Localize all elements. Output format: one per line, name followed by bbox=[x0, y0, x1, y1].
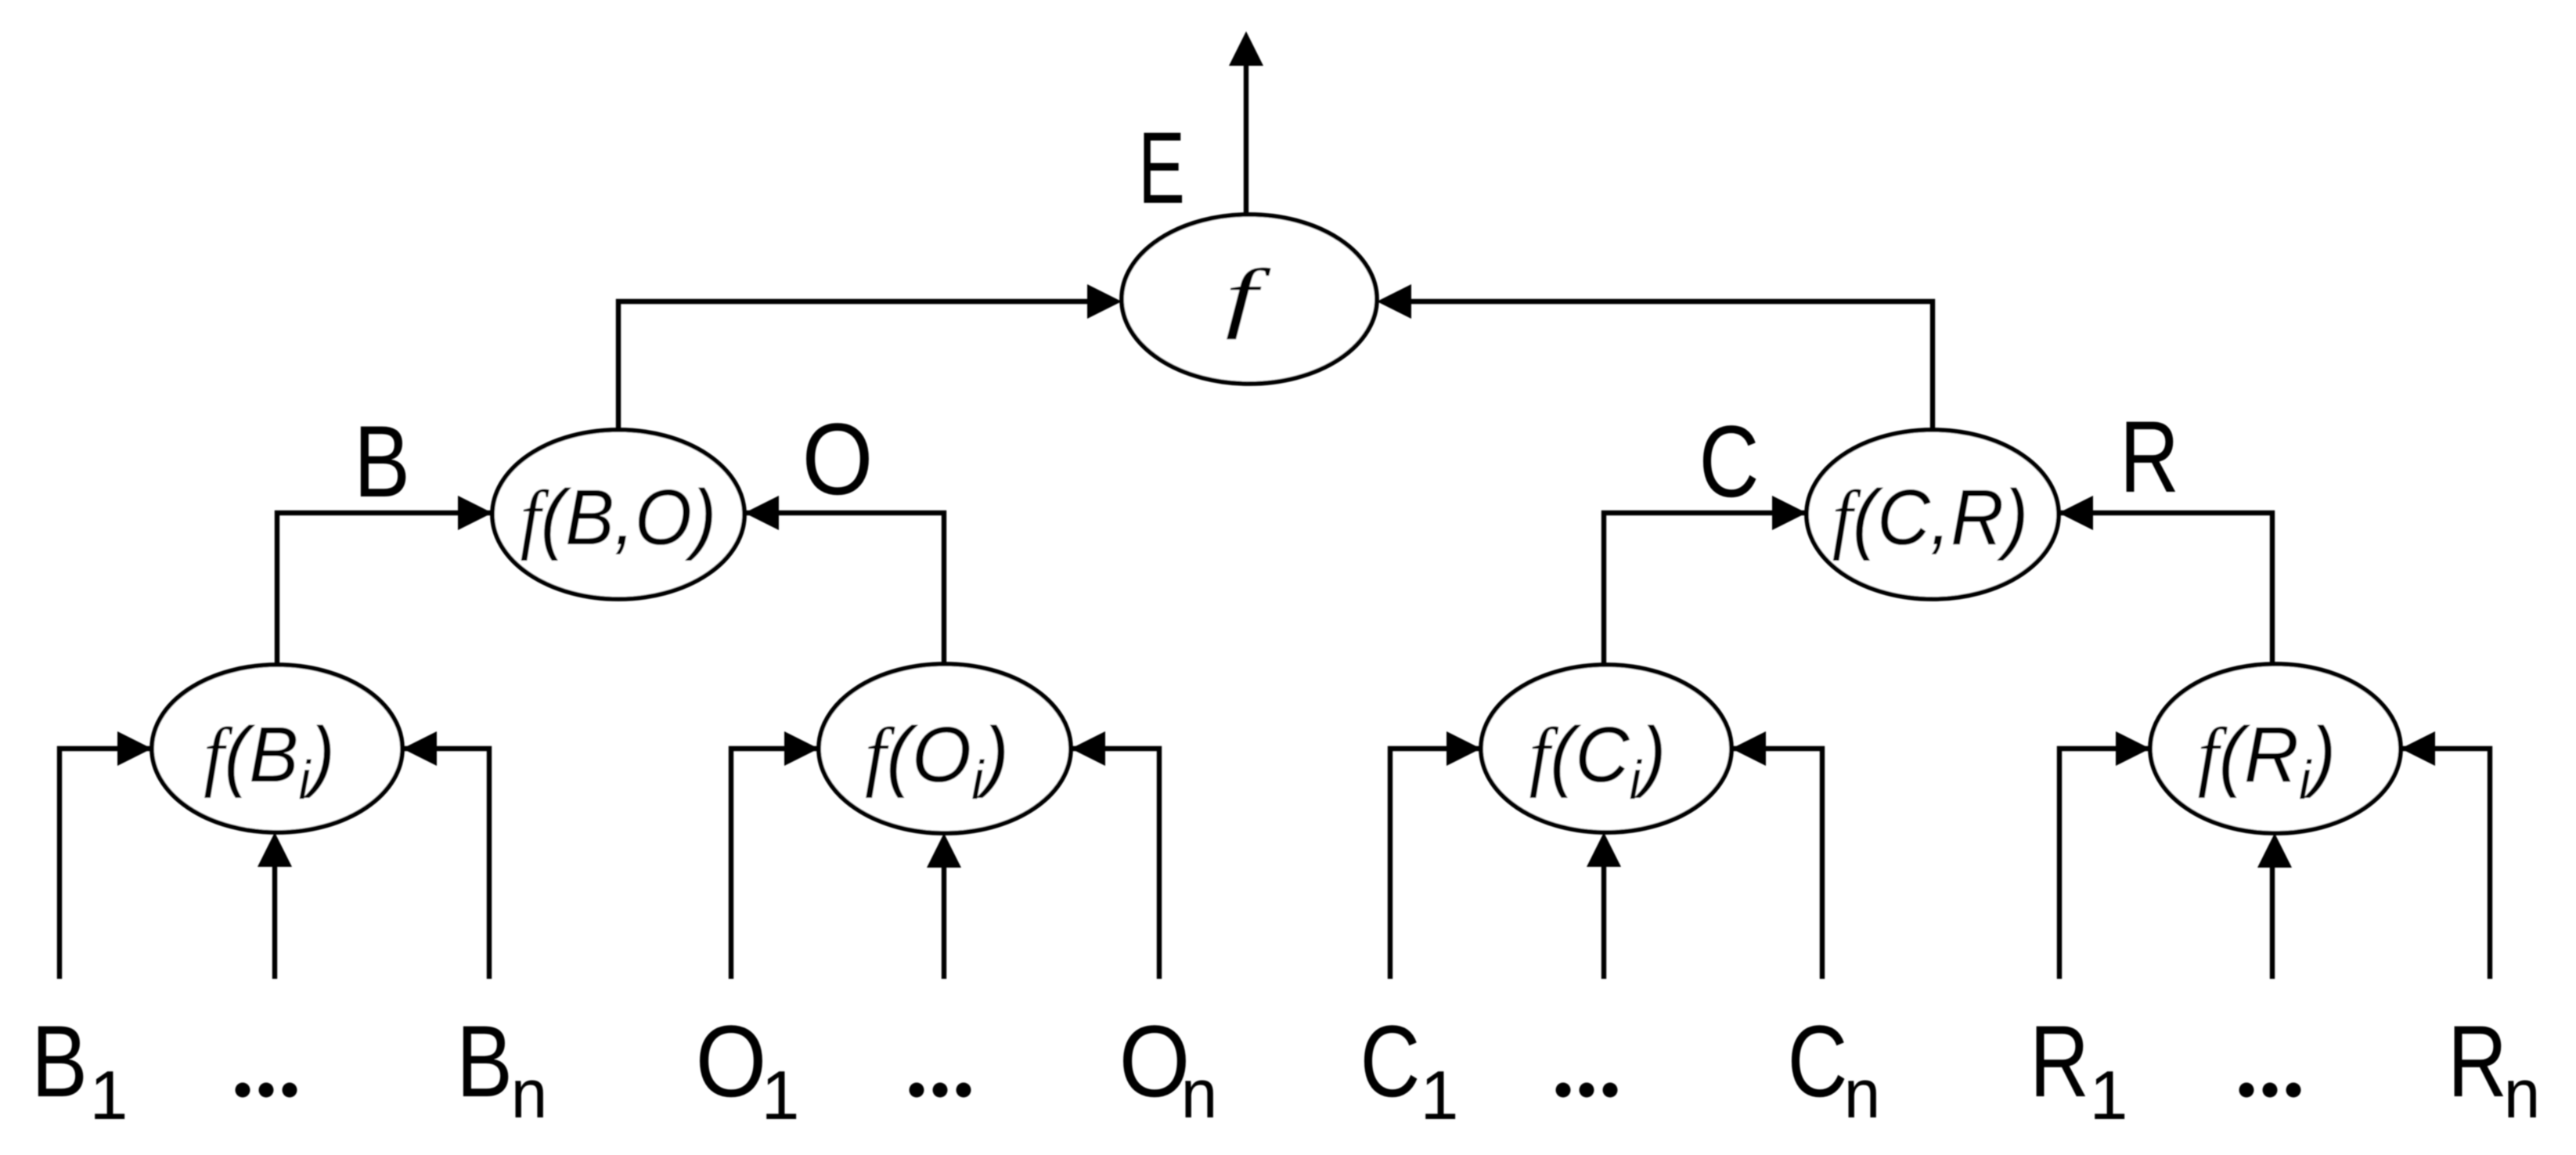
label input B_1 bbox=[31, 1005, 128, 1134]
label B (edge into f(B,O)) bbox=[354, 406, 410, 519]
arrowhead into f(C_i) right bbox=[1731, 731, 1766, 766]
arrowhead into f(B,O) left bbox=[458, 496, 492, 530]
arrowhead into f(B_i) left bbox=[117, 731, 152, 766]
svg-text:f(B,O): f(B,O) bbox=[521, 473, 717, 561]
node text f(C_i) bbox=[1529, 710, 1666, 810]
label input B_n bbox=[456, 1005, 547, 1133]
node text f(R_i) bbox=[2198, 711, 2336, 811]
arrowhead into f(C,R) right bbox=[2059, 496, 2093, 530]
node text f(C,R) bbox=[1832, 473, 2029, 561]
svg-text:f(Ri): f(Ri) bbox=[2198, 711, 2336, 811]
node ellipse U_CR f(C,R) bbox=[1807, 430, 2059, 599]
node text f(O_i) bbox=[865, 710, 1009, 810]
label ellipsis between O_1 and O_n bbox=[910, 1083, 971, 1098]
node ellipse U_Ci f(C_i) bbox=[1481, 665, 1731, 832]
label C (edge into f(C,R)) bbox=[1699, 405, 1760, 518]
svg-text:n: n bbox=[1181, 1056, 1217, 1132]
node text f(B_i) bbox=[204, 711, 335, 811]
wire C from f(C_i) top to f(C,R) left input bbox=[1604, 513, 1839, 667]
svg-text:n: n bbox=[511, 1056, 547, 1132]
svg-text:f(Bi): f(Bi) bbox=[204, 711, 335, 811]
node ellipse U_f top aggregation bbox=[1122, 215, 1377, 384]
wire O_1 input to f(O_i) left bbox=[731, 749, 855, 979]
label O (edge into f(B,O)) bbox=[802, 402, 874, 516]
arrowhead into f left bbox=[1087, 284, 1122, 319]
svg-text:f(Ci): f(Ci) bbox=[1529, 710, 1666, 810]
node text f inside top ellipse bbox=[1225, 253, 1271, 340]
wire O_middle input to f(O_i) bottom bbox=[942, 866, 946, 979]
svg-text:C: C bbox=[1699, 405, 1760, 518]
label input R_1 bbox=[2030, 1005, 2127, 1134]
label input O_1 bbox=[696, 1005, 800, 1134]
arrowhead into f(R_i) right bbox=[2401, 731, 2435, 766]
wire R_1 input to f(R_i) left bbox=[2059, 749, 2186, 979]
arrowhead into f(B_i) right bbox=[402, 731, 437, 766]
label input O_n bbox=[1119, 1005, 1218, 1132]
label ellipsis between C_1 and C_n bbox=[1556, 1083, 1618, 1098]
svg-text:R: R bbox=[2448, 1005, 2507, 1119]
wire O from f(O_i) top to f(B,O) right input bbox=[712, 513, 944, 667]
label ellipsis between B_1 and B_n bbox=[236, 1083, 297, 1098]
wire O_n input to f(O_i) right bbox=[1035, 749, 1159, 979]
arrowhead into f right bbox=[1377, 284, 1411, 319]
node ellipse U_Ri f(R_i) bbox=[2150, 664, 2401, 833]
label E (output of f) bbox=[1138, 110, 1185, 225]
node text f(B,O) bbox=[521, 473, 717, 561]
svg-text:1: 1 bbox=[90, 1056, 128, 1134]
node ellipse U_Bi f(B_i) bbox=[152, 665, 402, 832]
svg-text:n: n bbox=[1844, 1056, 1880, 1132]
svg-text:n: n bbox=[2504, 1056, 2540, 1132]
wire B_1 input to f(B_i) left bbox=[59, 749, 188, 979]
svg-text:1: 1 bbox=[1421, 1056, 1459, 1134]
svg-text:f(Oi): f(Oi) bbox=[865, 710, 1009, 810]
arrowhead into f(O_i) right bbox=[1071, 731, 1105, 766]
wire R_n input to f(R_i) right bbox=[2365, 749, 2490, 979]
svg-text:C: C bbox=[1788, 1005, 1848, 1118]
svg-text:B: B bbox=[31, 1005, 88, 1119]
svg-text:1: 1 bbox=[2090, 1056, 2128, 1134]
wire C,R result from f(C,R) top to f right input bbox=[1408, 301, 1933, 433]
label input C_1 bbox=[1360, 1005, 1459, 1134]
wire R from f(R_i) top to f(C,R) right input bbox=[2026, 513, 2272, 667]
svg-text:O: O bbox=[1119, 1005, 1191, 1118]
svg-text:C: C bbox=[1360, 1005, 1421, 1118]
wire C_1 input to f(C_i) left bbox=[1390, 749, 1517, 979]
arrowhead into f(B_i) bottom bbox=[258, 832, 292, 867]
node ellipse U_BO f(B,O) bbox=[492, 430, 744, 599]
arrowhead into f(C,R) left bbox=[1772, 496, 1807, 530]
wire R_middle input to f(R_i) bottom bbox=[2270, 866, 2275, 979]
arrowhead into f(R_i) left bbox=[2116, 731, 2150, 766]
svg-text:E: E bbox=[1138, 110, 1185, 225]
wire output from f upward bbox=[1244, 66, 1248, 218]
wire B_n input to f(B_i) right bbox=[366, 749, 489, 979]
label input R_n bbox=[2448, 1005, 2540, 1133]
wire B,O result from f(B,O) top to f left input bbox=[618, 301, 1090, 433]
arrowhead into f(C_i) bottom bbox=[1587, 832, 1621, 867]
arrowhead into f(R_i) bottom bbox=[2257, 833, 2292, 868]
node ellipse U_Oi f(O_i) bbox=[819, 664, 1071, 833]
svg-text:O: O bbox=[696, 1005, 767, 1118]
svg-text:R: R bbox=[2120, 401, 2179, 514]
arrowhead into f(C_i) left bbox=[1447, 731, 1481, 766]
svg-text:1: 1 bbox=[762, 1056, 800, 1134]
wire B from f(B_i) top to f(B,O) left input bbox=[277, 513, 525, 667]
label input C_n bbox=[1788, 1005, 1881, 1132]
svg-text:f(C,R): f(C,R) bbox=[1832, 473, 2029, 561]
arrowhead into f(O_i) bottom bbox=[927, 833, 961, 868]
arrowhead into f(B,O) right bbox=[744, 496, 779, 530]
svg-text:B: B bbox=[354, 406, 410, 519]
label R (edge into f(C,R)) bbox=[2120, 401, 2179, 514]
wire C_n input to f(C_i) right bbox=[1695, 749, 1822, 979]
arrowhead output E above f bbox=[1229, 31, 1263, 66]
svg-text:O: O bbox=[802, 402, 874, 516]
svg-text:B: B bbox=[456, 1005, 513, 1119]
wire B_middle input to f(B_i) bottom bbox=[272, 865, 277, 979]
svg-text:R: R bbox=[2030, 1005, 2089, 1119]
arrowhead into f(O_i) left bbox=[784, 731, 819, 766]
wire C_middle input to f(C_i) bottom bbox=[1601, 865, 1606, 979]
label ellipsis between R_1 and R_n bbox=[2239, 1083, 2301, 1098]
